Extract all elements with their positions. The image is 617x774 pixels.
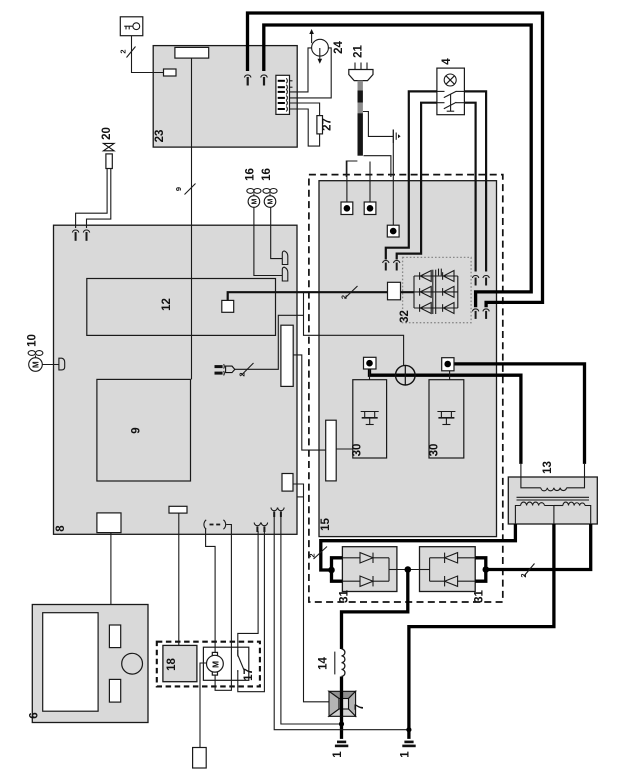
corridor wire down to generator circle [304,292,404,365]
small rect above relay wire [169,506,187,513]
dashed starter box 17 [157,642,260,687]
svg-text:6: 6 [29,712,41,718]
transformer 13 internals [515,488,590,524]
wire key switch to box 23 [132,36,164,73]
bundle slash 2 on plug wire [241,363,254,376]
bullet pins right of block 32 upper [472,276,489,286]
key switch box [120,17,143,36]
svg-text:21: 21 [353,45,365,58]
terminal square T4 [364,357,377,369]
wire box8 edge join [297,496,304,498]
svg-text:12: 12 [161,298,173,311]
bundle slash 2 at module 31 left [314,547,328,560]
wire plug in box 8 to corridor [235,315,304,369]
dashed boundary box 15 [309,175,503,602]
bundle slash 2 on trigger wire [345,286,358,299]
tab terminal for 10 on box8 left edge [59,358,65,370]
HT cable housing outline [346,161,357,177]
wire box8 to battery 6 [110,533,112,605]
flasher symbol 20 [103,143,114,168]
svg-text:24: 24 [333,41,345,54]
bullet pins right of block 32 lower [472,309,489,319]
svg-text:16: 16 [261,168,273,181]
wire fan 16 left to tab2 [254,207,282,275]
resistor 27 [317,116,323,134]
switch box 30 right [429,380,464,458]
svg-text:M: M [32,361,41,368]
fan motor 16 right [263,189,277,208]
trigger wire box 8 to rectifier 32 [228,292,414,300]
diode module 31 right [420,547,476,592]
rectifier block 32 dotted box [403,257,472,322]
lamp glyph in box 4 [444,74,456,86]
connector symbol ( - - ) on box8 bottom [204,520,226,529]
thick wire junction to inductor 14 [342,570,408,650]
white rects in box 23 [175,47,209,58]
tab terminal 1 on box8 right edge [282,251,288,265]
svg-text:9: 9 [131,427,143,433]
svg-text:M: M [252,199,259,205]
terminal square T5 [442,358,454,371]
diodes module 31 right [420,553,476,587]
connector comb on box 23 [276,75,290,114]
svg-text:2: 2 [340,295,349,299]
svg-text:8: 8 [55,525,67,532]
lamp-switch box 4 [437,68,465,115]
wires flasher 20 to box 8 pins [76,169,108,229]
pickup sensor 24 [309,29,328,64]
spark plug 21 [349,63,373,81]
svg-text:7: 7 [354,704,366,710]
svg-text:2: 2 [238,372,247,376]
inductor 14 [335,649,345,676]
svg-text:32: 32 [399,310,411,323]
thick wire through device 7 [340,691,343,716]
stub T5 to box 30 right [449,371,451,380]
stub T4 to box 30 left [369,367,371,380]
bottom connector rect [193,748,207,769]
svg-text:30: 30 [429,444,441,457]
wire terminal T2 up [369,162,371,203]
thick wire transformer 13 right secondary to module 31 right [486,524,591,570]
wire terminal T1 up [346,162,348,203]
wire comb pin5 to resistor 27 [285,103,320,116]
junction dot module 31 left input [328,567,335,574]
wire comb pin1 stub [285,80,293,82]
small rect on box8 right lower [282,474,293,492]
wire box8 tall connector to connector 15 [293,355,326,450]
diode module 31 left [342,547,397,592]
trigger square inside box 8 [222,300,234,312]
junction dot above ground 1 [339,721,344,726]
thick supply wire outer frame [248,13,543,307]
MOSFET glyph box 30 left [361,412,379,425]
wire box8 to relay 18 [178,513,180,645]
wire comb pin3 to sensor 24 left [285,48,312,92]
thick supply wire inner frame [264,25,531,307]
module box 9 (inside 8) [97,379,191,481]
switch box 30 left [353,380,387,458]
svg-text:13: 13 [542,461,554,474]
svg-text:M: M [268,199,275,205]
pump motor 10 [28,351,43,372]
starter motor M [207,652,224,675]
lamp unit 4 inner loop wire [397,103,437,260]
ground 1 symbol [335,741,348,748]
thin entry primary left [521,464,541,488]
relay box 18 [163,645,197,681]
wire box8 fork to switch 17 top [238,531,258,655]
wire motor to bottom connector [200,663,206,748]
battery box 6 [32,605,148,723]
diodes module 31 left [342,553,397,587]
thin wire box8 fork B to ground 2 junction [281,514,342,724]
ground 2 symbol [402,741,415,748]
svg-text:2: 2 [308,553,317,557]
thin entry primary right [567,464,585,488]
wire comb pin4 to sensor 24 right [285,48,331,98]
svg-text:31: 31 [474,590,486,603]
tab terminal 2 on box8 right edge [282,267,288,281]
svg-text:30: 30 [352,444,364,457]
MOSFET glyph box 30 right [437,412,455,425]
svg-text:23: 23 [154,130,166,143]
fork pins inside box8 pair2 [271,508,284,518]
wire spark plug cable ground branch [363,112,393,137]
thin wire box8 fork A to device 7 junction [274,514,409,730]
wire comb pin2 stub [285,86,293,88]
junction dot above ground 2 [406,727,411,732]
junction dot module 31 right input [483,566,490,573]
terminal square T2 [364,202,376,215]
bullet pins on box8 top-left [72,230,89,241]
wire box8 lower rect to device 7 [293,484,329,702]
connector white rect 32-input [388,282,401,300]
thick wire T5 to transformer 13 primary right [452,364,585,464]
connector rect in box 15 [326,420,337,481]
wire switch 17 bottom return to box8 fork [238,531,265,692]
svg-text:1: 1 [400,751,412,758]
HT cable of 21 [358,81,363,156]
svg-text:15: 15 [320,518,332,531]
device 7 (3D block) [329,691,356,716]
transformer box 13 [508,477,597,524]
wire box 23 to box 9 (bundle) [191,58,193,379]
svg-text:4: 4 [441,58,453,65]
svg-text:M: M [210,661,220,668]
wire comb pin6 to resistor 27 bottom [285,109,320,146]
junction dot at 31 modules [405,566,412,573]
bundle slash 2 at module 31 right [524,564,535,577]
svg-text:1: 1 [332,751,344,758]
svg-text:2: 2 [119,49,128,53]
thick wire transformer 13 left secondary to module 31 left [321,524,516,570]
wire pump 10 to tab [42,364,59,366]
starter motor enclosure [203,647,248,680]
thick split into module 31 left inputs [332,558,343,581]
fork pins on box8 bottom edge pair1 [254,523,267,533]
svg-text:14: 14 [318,657,330,670]
terminal square T3 [387,225,399,237]
lamp unit 4 outer loop wire [386,91,437,259]
svg-text:9: 9 [174,187,183,191]
module box 12 (inside 8) [87,279,276,336]
plug symbol inside box 8 [215,364,235,375]
bundle slash 9 [185,184,196,195]
terminal square T1 [341,202,353,215]
wire connector 15 to box 30 left [336,448,353,450]
thick wire T4 to transformer 13 primary left [370,365,521,464]
wire motor bottom return to connector right [215,525,231,691]
white rect on box8 bottom-left [97,513,121,533]
bullet pins box15 top (from lamp 4 loop) [383,261,400,271]
wire ground bar to terminal T3 [392,130,394,227]
rectifier 32 internals [414,269,458,314]
wire connector left arc to motor top [206,529,216,653]
power unit gray box 15 [319,181,497,537]
generator circle symbol [396,365,416,385]
bullet pins in box 23 for thick wires [244,75,267,86]
svg-text:2: 2 [519,573,528,577]
svg-text:27: 27 [322,118,334,131]
svg-text:16: 16 [245,168,257,181]
thin link between 31 modules [397,569,420,571]
wire fan 16 right to tab1 [271,207,283,258]
thick split into module 31 right inputs [475,558,486,581]
svg-text:18: 18 [166,658,178,671]
svg-text:31: 31 [339,590,351,603]
control unit box 8 [54,225,298,534]
thick wire inductor to device 7 to ground 1 [340,677,343,739]
svg-text:20: 20 [101,127,113,140]
thick wire transformer 13 center tap to ground 2 [409,524,554,739]
key glyph in key switch box [124,23,140,30]
svg-text:17: 17 [243,668,255,681]
svg-text:10: 10 [27,334,39,347]
bundle slash 2 on key wire [127,47,136,58]
ECU box 23 [153,46,297,148]
switch glyph in box 4 [437,91,465,111]
tall connector rect in box 8 [281,325,293,386]
earth ground of cable 21 [393,130,400,144]
fan motor 16 left [247,189,261,208]
switch glyph in box 17 [238,650,244,672]
